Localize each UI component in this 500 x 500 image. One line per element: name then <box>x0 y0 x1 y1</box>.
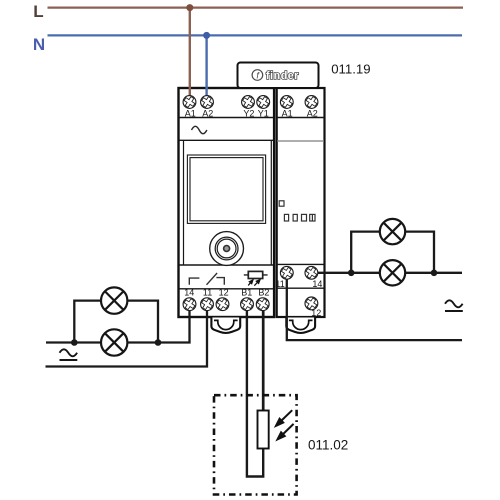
svg-text:A2: A2 <box>307 108 318 118</box>
svg-text:011.02: 011.02 <box>308 437 348 452</box>
svg-text:12: 12 <box>311 308 321 318</box>
svg-text:011.19: 011.19 <box>331 62 370 77</box>
svg-text:B1: B1 <box>241 288 252 298</box>
svg-text:N: N <box>33 35 45 54</box>
svg-text:11: 11 <box>275 279 284 289</box>
svg-text:A2: A2 <box>202 108 213 118</box>
svg-text:Y1: Y1 <box>258 108 269 118</box>
svg-text:14: 14 <box>312 279 322 289</box>
svg-text:B2: B2 <box>258 288 269 298</box>
svg-text:14: 14 <box>184 288 194 298</box>
svg-text:A1: A1 <box>282 108 293 118</box>
svg-text:A1: A1 <box>185 108 196 118</box>
svg-text:12: 12 <box>219 288 229 298</box>
svg-text:11: 11 <box>203 288 212 298</box>
svg-text:finder: finder <box>266 70 299 82</box>
svg-text:Y2: Y2 <box>243 108 254 118</box>
svg-text:L: L <box>33 2 43 21</box>
